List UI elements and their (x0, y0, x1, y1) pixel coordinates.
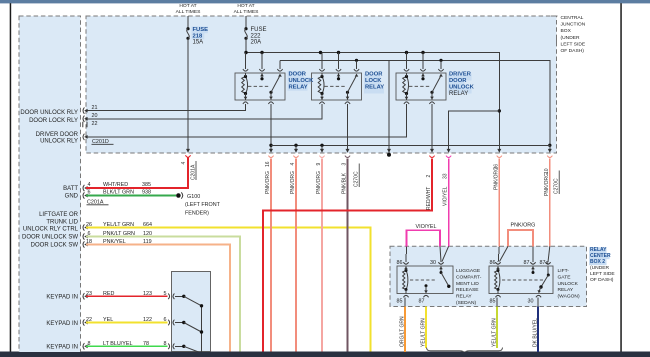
connector bracket module edge y=136.9 (83, 134, 84, 140)
wire PNK/LT GRN 120 door unlock sw (86, 237, 240, 352)
connector bracket pin22 (no wire) (83, 122, 87, 127)
svg-text:2: 2 (426, 175, 432, 178)
wire PNK/ORG 16 (270, 159, 272, 352)
wire fuse222 down to bus (245, 38, 247, 52)
bottom dark bar overlay (0, 352, 650, 357)
svg-text:85: 85 (397, 299, 403, 305)
svg-text:RELAY: RELAY (365, 85, 384, 91)
relay K2 door lock coil pin verticals (321, 73, 323, 100)
relay K2 door lock common stub and arrow (347, 92, 349, 99)
relay K3 driver door unlock: case (396, 73, 446, 100)
junction splice at CJB border (387, 153, 391, 157)
relay K2 door lock armature linkage (dashed) (325, 85, 346, 87)
wire relay K2 coil return to module pin 20 (86, 104, 322, 119)
svg-text:VIO/YEL: VIO/YEL (443, 186, 449, 206)
svg-text:COMPART-: COMPART- (456, 274, 482, 280)
svg-text:PNK/ORG: PNK/ORG (316, 171, 322, 194)
svg-text:87: 87 (419, 299, 425, 305)
junction PNK/ORG 10 drop (548, 144, 551, 147)
connector arrow at CJB exit x=389 (387, 149, 391, 153)
relay K5 armature linkage (502, 279, 545, 281)
label relay K2 DOOR LOCK RELAY (364, 74, 380, 81)
wire YEL 122 keypad in (86, 322, 168, 324)
svg-text:ORG/LT GRN: ORG/LT GRN (400, 316, 406, 347)
svg-text:HOT AT: HOT AT (237, 3, 254, 9)
svg-text:DRIVER: DRIVER (449, 72, 472, 78)
connector bracket module edge y=296.3 (83, 293, 84, 299)
svg-text:4: 4 (181, 162, 187, 165)
relay K3 driver door unlock armature linkage (dashed) (409, 85, 430, 87)
relay K2 door lock terminal cup top A (319, 69, 324, 71)
connector bracket module edge y=322.5 (83, 319, 84, 325)
relay center box 2 (dashed) (390, 246, 587, 306)
keypad entry cups (168, 294, 169, 300)
svg-text:DOOR UNLOCK SW: DOOR UNLOCK SW (22, 235, 78, 241)
wire PNK/ORG 4 drop (295, 145, 297, 149)
relay K5 coil (495, 271, 498, 290)
svg-text:LUGGAGE: LUGGAGE (456, 268, 481, 274)
right page rule (620, 3, 622, 353)
wire relay K2 common to PNK/BLK 3 (347, 104, 349, 150)
svg-text:KEYPAD IN: KEYPAD IN (46, 345, 78, 351)
svg-text:22: 22 (92, 121, 98, 127)
relay K5 pin 87a cup (545, 262, 550, 264)
relay K5 pin 87 wire in (532, 246, 534, 262)
wire PNK/ORG 10 exit (549, 145, 551, 149)
relay K4 armature linkage (410, 279, 437, 281)
relay K1 door unlock pin 85 coil feed wire from bus (245, 53, 247, 69)
relay K5 pin 87 arrow + stub (531, 266, 535, 269)
relay K2 door lock terminal cup bottom common (345, 102, 350, 104)
wire stub net down between relays (388, 60, 390, 152)
svg-text:119: 119 (143, 239, 152, 245)
relay K5 pin 86 wires in (feed + jumper diagonal) (498, 246, 499, 262)
relay K5 pin 87a wire in (548, 246, 550, 262)
wire VIO/YEL 33 (448, 159, 450, 247)
svg-text:22: 22 (86, 317, 92, 323)
fuse 222 20A (244, 27, 247, 30)
leader dash CJB label (551, 16, 558, 44)
svg-text:LIFTGATE OR: LIFTGATE OR (39, 212, 79, 218)
connector bracket module edge y=249 (83, 241, 84, 247)
relay K1 door unlock common stub and arrow (270, 92, 272, 99)
top slate bar (0, 0, 650, 3)
relay K3 driver door unlock pin B stub and arrow (422, 74, 424, 79)
svg-text:YEL/LT GRN: YEL/LT GRN (492, 318, 498, 347)
svg-text:(WAGON): (WAGON) (558, 294, 580, 300)
label RELAY CENTER BOX 2 (589, 247, 607, 253)
relay K1 door unlock pin NC feed wire from bus (261, 53, 263, 69)
svg-text:PNK/YEL: PNK/YEL (103, 239, 126, 245)
node HOT AT ALL TIMES feed 1 (187, 16, 189, 27)
wire DK BLU/YEL relay5 pin30 (537, 307, 539, 353)
connector bracket module edge y=238.5 (83, 233, 84, 239)
svg-text:30: 30 (430, 260, 436, 266)
junction feed split to VIO/YEL 33 (498, 109, 501, 112)
svg-text:BATT: BATT (63, 186, 78, 192)
relay K3 driver door unlock pin NC feed wire from bus (422, 53, 424, 69)
svg-text:PNK/ORG: PNK/ORG (265, 171, 271, 194)
relay K3 driver door unlock contact C riser (440, 60, 442, 69)
relay K4 pin 87 cup (423, 295, 428, 297)
wire PNK/YEL 119 door lock sw (86, 245, 230, 352)
svg-text:RELAY: RELAY (449, 91, 468, 97)
svg-text:VIO/YEL: VIO/YEL (416, 224, 437, 230)
svg-text:3: 3 (342, 163, 348, 166)
svg-text:FUSE: FUSE (251, 27, 267, 33)
svg-text:DK BLU/YEL: DK BLU/YEL (533, 318, 539, 347)
relay K3 driver door unlock terminal cup top C (438, 69, 443, 71)
central junction box (dashed) (86, 16, 557, 153)
relay K4 pin 86 wire into box (black below border) (405, 246, 408, 262)
svg-text:18: 18 (86, 239, 92, 245)
relay K2 door lock contact C riser (356, 60, 358, 69)
svg-text:BLK/LT GRN: BLK/LT GRN (103, 189, 134, 195)
relay K4 coil (403, 271, 406, 290)
connector bracket module edge y=118.8 (83, 116, 84, 122)
svg-text:(UNDER: (UNDER (561, 35, 580, 41)
relay K4 pin 85 cup and wire (403, 295, 408, 297)
label FUSE 218 15A (192, 26, 208, 33)
relay K2 door lock pin NC feed wire from bus (338, 53, 340, 69)
svg-text:LOCK: LOCK (365, 78, 382, 84)
relay K4 luggage compartment lid release: case (397, 266, 453, 294)
svg-text:DOOR: DOOR (449, 78, 467, 84)
keypad switch rail (201, 306, 203, 352)
relay K1 door unlock: case (235, 73, 285, 100)
svg-text:DOOR UNLOCK RLY: DOOR UNLOCK RLY (20, 110, 78, 116)
connector bracket module edge y=346.3 (83, 343, 84, 349)
svg-text:ALL TIMES: ALL TIMES (176, 9, 201, 15)
relay K3 driver door unlock coil pin verticals (406, 73, 408, 100)
svg-text:664: 664 (143, 222, 152, 228)
svg-text:UNLOCK RLY CTRL: UNLOCK RLY CTRL (23, 227, 79, 233)
connector arrow at CJB exit x=322 (320, 149, 324, 153)
svg-text:6: 6 (88, 231, 91, 237)
svg-text:15A: 15A (193, 39, 204, 45)
svg-text:RELAY: RELAY (456, 294, 472, 300)
relay K2 door lock terminal cup bottom coil (319, 102, 324, 104)
svg-text:16: 16 (265, 161, 271, 167)
svg-text:RED: RED (103, 291, 114, 297)
keypad switch 2 (175, 322, 183, 324)
connector arrow at CJB exit x=271 (269, 149, 273, 153)
svg-text:MENT LID: MENT LID (456, 281, 479, 287)
connector arrow at CJB exit x=549.8 (548, 149, 552, 153)
relay K5 pin 87a stub (547, 266, 549, 275)
wire fuse218 to C201A pin4 (187, 38, 189, 149)
relay K1 door unlock terminal cup bottom common (268, 102, 273, 104)
relay K1 door unlock contact C riser (279, 60, 281, 69)
svg-text:78: 78 (143, 341, 149, 347)
svg-text:218: 218 (193, 33, 203, 39)
svg-text:PNK/LT GRN: PNK/LT GRN (103, 231, 135, 237)
wire relay K1 common to outputs (270, 104, 272, 150)
junction PNK/ORG 4 (294, 144, 297, 147)
connector bracket module edge y=227.5 (83, 224, 84, 230)
junction contact line at relay3 (439, 59, 442, 62)
wire PNK/BLK 3 (347, 159, 349, 352)
svg-text:OF DASH): OF DASH) (590, 277, 614, 283)
svg-text:JUNCTION: JUNCTION (561, 22, 586, 28)
relay K1 door unlock coil (242, 77, 246, 94)
relay K3 driver door unlock terminal cup top B (420, 69, 425, 71)
svg-text:C270C: C270C (354, 171, 360, 187)
wire ORG/LT GRN relay4 pin85 (404, 307, 406, 353)
relay K2 door lock switch arm (346, 91, 349, 94)
svg-text:938: 938 (142, 189, 151, 195)
connector arrow at CJB exit x=432 (430, 149, 434, 153)
svg-text:4: 4 (88, 182, 91, 188)
keypad box (172, 272, 211, 352)
svg-text:PNK/ORG: PNK/ORG (544, 173, 550, 196)
relay K1 door unlock terminal cup bottom coil (243, 102, 248, 104)
svg-text:120: 120 (143, 231, 152, 237)
relay K4 pin 30 wires in (jumper + VIO/YEL diagonal) (440, 246, 441, 262)
svg-text:LIFT-: LIFT- (558, 268, 570, 274)
svg-text:CENTRAL: CENTRAL (561, 15, 584, 21)
keypad switch 1 (175, 295, 183, 297)
relay K4 pin 30 cup (438, 262, 443, 264)
svg-text:UNLOCK: UNLOCK (449, 85, 475, 91)
relay K1 door unlock pin B stub and arrow (261, 74, 263, 79)
wire RED 123 keypad in (86, 295, 168, 297)
svg-text:30: 30 (528, 299, 534, 305)
junction bus tap x=423 (421, 51, 424, 54)
wire VIO/YEL jumper 30-86 (407, 230, 441, 246)
keyless entry module box (left, dashed) (19, 16, 81, 355)
wire PNK/ORG 4 (295, 159, 297, 352)
svg-text:TRUNK LID: TRUNK LID (46, 219, 78, 225)
svg-text:RED/WHT: RED/WHT (426, 187, 432, 210)
svg-text:DOOR: DOOR (289, 72, 307, 78)
wire relay K3 coil return to driver door unlock rly pin (86, 104, 407, 137)
wire BLK/LT GRN 938 ground (86, 195, 176, 197)
relay K3 driver door unlock coil (403, 77, 407, 94)
svg-text:YEL/LT GRN: YEL/LT GRN (103, 222, 134, 228)
relay K4 pin 30 arrow and stub (439, 266, 443, 269)
connector arrow at CJB exit x=448.6 (447, 149, 451, 153)
wire YEL/LT GRN relay5 pin85 (496, 307, 498, 349)
connector bracket module edge y=198.5 (83, 192, 84, 198)
svg-text:FENDER): FENDER) (185, 211, 209, 217)
svg-text:87: 87 (524, 260, 530, 266)
wire PNK/ORG 10 (549, 159, 551, 247)
connector arrow at CJB exit x=296 (294, 149, 298, 153)
svg-text:4: 4 (290, 163, 296, 166)
ground G100 splice (176, 193, 181, 198)
svg-text:WHT/RED: WHT/RED (103, 182, 128, 188)
svg-text:85: 85 (490, 299, 496, 305)
svg-text:10: 10 (544, 168, 550, 174)
svg-text:(SEDAN): (SEDAN) (456, 300, 476, 306)
junction contact line at relay2 (355, 59, 358, 62)
wire relay K3 common to RED/WHT 2 (431, 104, 433, 150)
connector cup C201A pin4 (185, 155, 190, 157)
relay K5 pin 86 cup (495, 262, 500, 264)
left page rule (10, 3, 12, 353)
bottom dark bar (0, 352, 650, 357)
wire relay K1 coil return to module pin 21 (86, 104, 246, 111)
svg-text:33: 33 (443, 173, 449, 179)
svg-text:(UNDER: (UNDER (590, 265, 609, 271)
svg-text:DRIVER DOOR: DRIVER DOOR (36, 132, 79, 138)
relay K4 switch arm (441, 273, 449, 287)
svg-text:9: 9 (316, 163, 322, 166)
relay K2 door lock terminal cup top C (354, 69, 359, 71)
relay K5 pin 86 arrow (496, 266, 500, 269)
wire PNK/ORG 9 (321, 159, 323, 352)
junction bus tap x=406.5 (405, 51, 408, 54)
svg-text:GATE: GATE (558, 274, 572, 280)
svg-text:OF DASH): OF DASH) (561, 48, 585, 54)
wire YEL/LT GRN 664 liftgate unlock rly ctrl (86, 228, 371, 352)
fuse 218 15A (186, 27, 189, 30)
svg-text:BOX: BOX (561, 28, 572, 34)
relay K4 pin 87 contact stub (425, 284, 428, 287)
svg-text:YEL/LT GRN: YEL/LT GRN (421, 318, 427, 347)
svg-text:KEYPAD IN: KEYPAD IN (46, 321, 78, 327)
svg-text:PNK/ORG: PNK/ORG (290, 171, 296, 194)
svg-text:RELAY: RELAY (289, 85, 308, 91)
wire PNK/ORG 26 (498, 159, 500, 247)
label relay K1 DOOR UNLOCK RELAY (288, 71, 304, 78)
svg-text:222: 222 (251, 33, 262, 39)
junction bus tap x=262 (260, 51, 263, 54)
svg-text:26: 26 (86, 222, 92, 228)
relay K1 door unlock terminal cup top A (243, 69, 248, 71)
wire PNK/ORG jumper 86-87 (508, 230, 533, 246)
svg-text:FUSE: FUSE (193, 27, 209, 33)
connector arrow at CJB exit x=347.5 (346, 149, 350, 153)
svg-text:UNLOCK: UNLOCK (558, 281, 579, 287)
svg-text:PNK/BLK: PNK/BLK (342, 172, 348, 194)
svg-text:LT BLU/YEL: LT BLU/YEL (103, 341, 132, 347)
junction bus tap x=338.5 (337, 51, 340, 54)
svg-text:RELAY: RELAY (558, 287, 574, 293)
relay K3 driver door unlock common stub and arrow (431, 92, 433, 99)
svg-text:20: 20 (92, 113, 98, 119)
wire YEL/LT GRN relay4 pin87 (425, 307, 427, 349)
svg-text:KEYPAD IN: KEYPAD IN (46, 295, 78, 301)
svg-text:HOT AT: HOT AT (179, 3, 196, 9)
relay K2 door lock terminal cup top B (336, 69, 341, 71)
relay K5 pin 85 cup and wire (495, 295, 500, 297)
wire RED/WHT 2 keypad power (263, 159, 432, 352)
svg-text:RELEASE: RELEASE (456, 287, 479, 293)
relay K5 liftgate unlock: case (489, 266, 553, 294)
wire relay contact line (relay1-87a to PNK/ORG 10) (280, 60, 550, 145)
relay K5 switch arm (541, 275, 548, 287)
svg-text:20A: 20A (251, 39, 262, 45)
svg-text:C270C: C270C (554, 178, 560, 194)
wire WHT/RED 385 BATT feed (86, 158, 188, 189)
relay K3 driver door unlock switch arm (430, 91, 433, 94)
svg-text:G100: G100 (187, 194, 200, 200)
svg-text:YEL: YEL (103, 317, 113, 323)
relay K1 door unlock terminal cup top B (259, 69, 264, 71)
connector underbrace (liftgate/luggage feed join) (427, 348, 503, 354)
relay K1 door unlock switch arm (269, 91, 272, 94)
relay K3 driver door unlock pin 85 coil feed wire from bus (406, 53, 408, 69)
wire LT BLU/YEL 78 keypad in (86, 345, 168, 347)
svg-text:6: 6 (88, 189, 91, 195)
relay K3 driver door unlock terminal cup bottom coil (404, 102, 409, 104)
relay K4 pin 86 cup (403, 262, 408, 264)
svg-text:(LEFT FRONT: (LEFT FRONT (185, 202, 221, 208)
svg-text:LEFT SIDE: LEFT SIDE (590, 271, 615, 277)
wire branch to VIO/YEL 33 drop (449, 111, 500, 150)
svg-text:PNK/ORG: PNK/ORG (511, 223, 536, 229)
svg-text:8: 8 (88, 341, 91, 347)
svg-text:5: 5 (164, 291, 167, 297)
svg-text:123: 123 (143, 291, 152, 297)
relay K4 pin 86 arrow (404, 266, 408, 269)
relay K2 door lock coil (318, 77, 322, 94)
connector arrow at CJB exit x=188 (186, 149, 190, 153)
svg-text:DOOR LOCK SW: DOOR LOCK SW (31, 243, 79, 249)
relay K1 door unlock coil pin verticals (245, 73, 247, 100)
wire main feed bus from fuse 222 (246, 53, 499, 150)
wire PNK/ORG 9 drop (321, 145, 323, 149)
wire unlock output junction line (271, 144, 550, 146)
svg-text:26: 26 (493, 164, 499, 170)
svg-text:GND: GND (65, 194, 79, 200)
relay K2 door lock pin B stub and arrow (338, 74, 340, 79)
svg-text:UNLOCK: UNLOCK (289, 78, 315, 84)
relay K5 pin 30 cup (536, 295, 541, 297)
connector arrow at CJB exit x=499.3 (497, 149, 501, 153)
svg-text:6: 6 (164, 317, 167, 323)
junction PNK/ORG 9 (320, 144, 323, 147)
node HOT AT ALL TIMES feed 2 (245, 16, 247, 27)
relay K1 door unlock terminal cup top C (277, 69, 282, 71)
svg-text:23: 23 (86, 291, 92, 297)
svg-text:21: 21 (92, 105, 98, 111)
svg-text:ALL TIMES: ALL TIMES (234, 9, 259, 15)
svg-text:BOX 2: BOX 2 (590, 259, 605, 265)
svg-text:8: 8 (164, 341, 167, 347)
relay K3 driver door unlock terminal cup bottom common (429, 102, 434, 104)
relay K5 pin 30 arrow (539, 287, 541, 291)
svg-text:86: 86 (397, 260, 403, 266)
connector bracket module edge y=186.5 (83, 185, 84, 191)
relay K1 door unlock armature linkage (dashed) (248, 85, 269, 87)
svg-text:122: 122 (143, 317, 152, 323)
svg-text:87a: 87a (540, 260, 549, 266)
label relay K3 DRIVER DOOR UNLOCK RELAY (448, 74, 472, 81)
relay K5 pin 87 cup (530, 262, 535, 264)
relay K2 door lock: case (312, 73, 362, 100)
relay K3 driver door unlock terminal cup top A (404, 69, 409, 71)
junction bus tap x=320.5 (319, 51, 322, 54)
svg-text:86: 86 (490, 260, 496, 266)
keypad switch 3 (175, 345, 183, 347)
svg-text:385: 385 (142, 182, 151, 188)
svg-text:UNLOCK RLY: UNLOCK RLY (40, 139, 78, 145)
svg-text:DOOR: DOOR (365, 72, 383, 78)
svg-text:DOOR LOCK RLY: DOOR LOCK RLY (29, 118, 78, 124)
junction bus tap x=246 (244, 51, 247, 54)
relay K2 door lock pin 85 coil feed wire from bus (321, 53, 323, 69)
connector bracket module edge y=110.6 (83, 107, 84, 113)
svg-text:LEFT SIDE: LEFT SIDE (561, 41, 586, 47)
